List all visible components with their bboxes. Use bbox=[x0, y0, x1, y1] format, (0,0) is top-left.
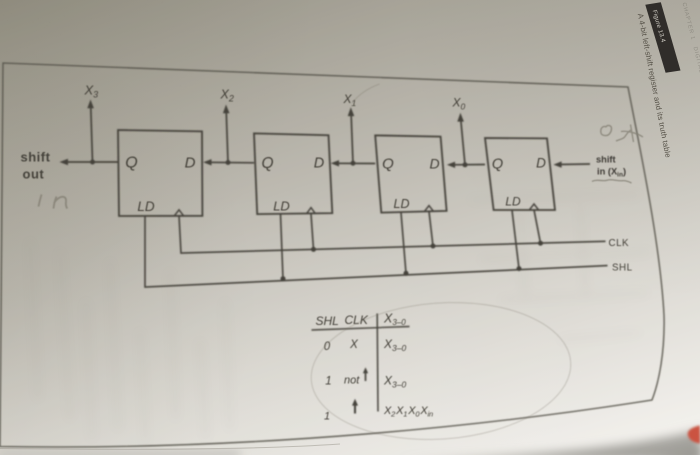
pencil wavy line under shift-in bbox=[592, 180, 632, 183]
row 3 clock edge arrow bbox=[354, 403, 356, 414]
pencil marks bbox=[39, 84, 644, 448]
wire U3.Q to U2.D bbox=[335, 162, 375, 164]
red object bottom-right bbox=[688, 426, 700, 444]
flip-flop U4 bbox=[485, 138, 555, 210]
node U4 LD junction bbox=[517, 266, 522, 271]
arrowhead shift-out bbox=[60, 159, 69, 165]
U4 LD drop wire bbox=[512, 210, 519, 269]
U2 clock drop wire bbox=[311, 214, 314, 250]
node U2 clock junction bbox=[311, 247, 316, 252]
arrowhead X1 bbox=[348, 107, 355, 116]
U1 clock wedge bbox=[175, 210, 184, 216]
arrowhead X3 bbox=[87, 100, 94, 109]
pencil arc near X1 bbox=[352, 84, 380, 103]
flip-flop U3 bbox=[375, 135, 446, 212]
CLK bus bbox=[179, 216, 606, 253]
page bottom edge (page under frame) bbox=[0, 444, 340, 449]
node X1 junction bbox=[351, 161, 356, 166]
arrowhead into U1.D bbox=[203, 159, 211, 165]
truth table divider bbox=[376, 314, 379, 412]
node U4 clock junction bbox=[538, 241, 543, 246]
pencil squiggle over frame edge bbox=[616, 125, 643, 143]
wire shift-out from U1.Q bbox=[64, 161, 118, 163]
pencil loop near shift-in bbox=[601, 125, 612, 135]
node U3 clock junction bbox=[431, 244, 436, 249]
wire X2 riser bbox=[226, 113, 228, 163]
U3 clock wedge bbox=[425, 206, 434, 212]
U1 pin labels bbox=[125, 155, 195, 215]
row 2 clock edge arrow bbox=[365, 371, 367, 382]
node U3 LD junction bbox=[404, 271, 409, 276]
node X0 junction bbox=[463, 162, 468, 167]
arrowhead into U3.D bbox=[447, 162, 455, 168]
wire U4.Q to U3.D bbox=[451, 164, 485, 166]
arrowhead into U4.D bbox=[553, 161, 561, 167]
U4 clock wedge bbox=[530, 204, 539, 210]
truth table row 3 bbox=[324, 405, 433, 423]
truth table row 1 bbox=[324, 337, 407, 353]
flip-flop U2 bbox=[254, 133, 332, 214]
flip-flop U1 bbox=[118, 130, 202, 216]
arrowhead X0 bbox=[457, 113, 464, 122]
truth table row 2 bbox=[325, 374, 406, 390]
U3 LD drop wire bbox=[401, 213, 406, 274]
desk surface bottom-right bbox=[0, 430, 700, 455]
node X3 junction bbox=[90, 160, 95, 165]
ghost show-through marks bbox=[30, 195, 650, 445]
node U2 LD junction bbox=[281, 276, 286, 281]
arrowhead into U2.D bbox=[331, 160, 339, 166]
U2 pin labels bbox=[261, 155, 324, 214]
U2 LD drop wire bbox=[281, 214, 284, 279]
U4 clock drop wire bbox=[534, 210, 541, 243]
SHL bus bbox=[145, 216, 608, 288]
wire X1 riser bbox=[351, 116, 353, 163]
U3 pin labels bbox=[382, 156, 439, 212]
wire X0 riser bbox=[461, 121, 465, 165]
truth table header underline bbox=[312, 327, 410, 331]
wire X3 riser bbox=[91, 108, 93, 162]
caption black bar bbox=[645, 2, 680, 73]
wire shift-in to U4.D bbox=[557, 163, 590, 166]
handwritten 'in' bbox=[39, 195, 42, 207]
pencil oval around table bbox=[307, 294, 576, 448]
truth table header SHL CLK bbox=[316, 312, 407, 329]
arrowhead X2 bbox=[223, 105, 230, 114]
wire U2.Q to U1.D bbox=[208, 161, 255, 164]
U3 clock drop wire bbox=[429, 211, 433, 246]
U2 clock wedge bbox=[307, 208, 316, 214]
U4 pin labels bbox=[492, 156, 546, 209]
node X2 junction bbox=[226, 160, 231, 165]
